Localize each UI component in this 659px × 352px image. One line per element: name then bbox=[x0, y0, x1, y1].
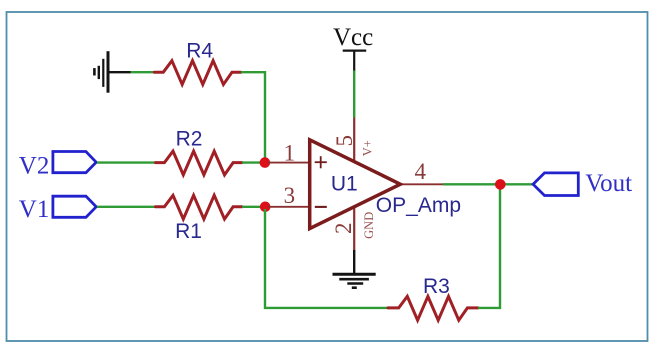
port V1 bbox=[53, 196, 96, 217]
pin 1 (+ input) bbox=[268, 162, 310, 164]
svg-text:2: 2 bbox=[331, 223, 356, 235]
ground GND1 (power ground, rotated left) bbox=[94, 51, 131, 92]
wire V2 to R2 bbox=[97, 161, 156, 163]
wire R1 to node 3 bbox=[242, 206, 265, 208]
wire R4 to node 1 bbox=[241, 72, 265, 162]
svg-text:OP_Amp: OP_Amp bbox=[376, 194, 461, 217]
minus marker bbox=[315, 206, 327, 208]
pin 3 (- input) bbox=[268, 206, 310, 208]
wire V1 to R1 bbox=[97, 206, 156, 208]
wire ground to R4 bbox=[131, 71, 155, 73]
wire R3 to output node bbox=[478, 184, 500, 308]
svg-text:Vcc: Vcc bbox=[333, 24, 373, 51]
svg-text:R4: R4 bbox=[186, 39, 213, 62]
svg-text:5: 5 bbox=[332, 135, 357, 147]
junction node 3 bbox=[260, 202, 271, 213]
svg-text:R3: R3 bbox=[423, 275, 450, 298]
svg-text:V1: V1 bbox=[19, 196, 50, 223]
pin 2 (GND) bbox=[353, 207, 355, 251]
junction output node bbox=[495, 179, 506, 190]
resistor R3 bbox=[388, 296, 478, 320]
junction node 1 bbox=[260, 157, 271, 168]
svg-text:R2: R2 bbox=[176, 128, 203, 151]
pin 5 (V+) bbox=[353, 118, 355, 162]
wire R2 to node 1 bbox=[242, 161, 265, 163]
svg-text:4: 4 bbox=[414, 159, 426, 184]
resistor R1 bbox=[156, 195, 243, 219]
port V2 bbox=[53, 152, 96, 173]
resistor R2 bbox=[156, 151, 243, 175]
ground GND2 (under op-amp) bbox=[333, 250, 376, 288]
resistor R4 bbox=[154, 61, 241, 85]
wire pin 4 to Vout bbox=[443, 183, 534, 185]
svg-text:V+: V+ bbox=[361, 140, 375, 156]
svg-text:V2: V2 bbox=[19, 152, 50, 179]
svg-text:R1: R1 bbox=[175, 220, 202, 243]
wire node 3 to R3 (feedback run) bbox=[265, 209, 388, 308]
svg-text:3: 3 bbox=[284, 183, 296, 208]
op-amp triangle body bbox=[310, 140, 401, 229]
wire Vcc to pin 5 bbox=[353, 71, 355, 118]
svg-text:GND: GND bbox=[362, 212, 376, 239]
port Vout bbox=[533, 173, 578, 196]
svg-text:Vout: Vout bbox=[585, 170, 632, 197]
power symbol Vcc bbox=[343, 49, 367, 51]
pin 4 (output) bbox=[400, 183, 443, 185]
svg-text:1: 1 bbox=[284, 140, 296, 165]
op-amp U1 bbox=[268, 118, 461, 251]
plus marker bbox=[315, 156, 327, 168]
svg-text:U1: U1 bbox=[331, 172, 358, 195]
